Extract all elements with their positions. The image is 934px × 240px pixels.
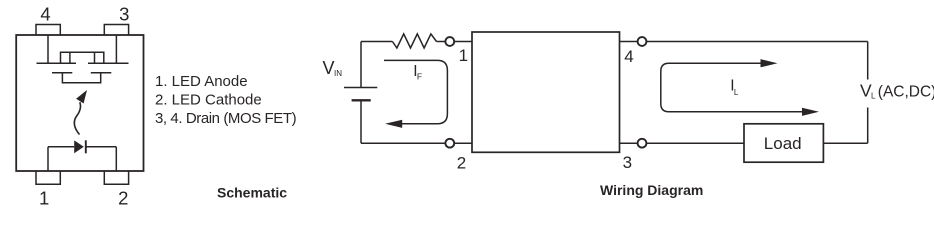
svg-text:1: 1 <box>39 188 49 209</box>
wire right vertical lower <box>867 108 869 144</box>
svg-text:4: 4 <box>624 47 633 66</box>
svg-text:Wiring Diagram: Wiring Diagram <box>600 182 703 198</box>
pin 1 tab <box>36 171 60 184</box>
svg-text:IN: IN <box>334 69 342 78</box>
IL current loop arrow <box>661 59 819 116</box>
battery VIN <box>344 42 377 144</box>
LED cathode leg to pin2 <box>115 147 117 171</box>
VL label <box>860 80 934 100</box>
wire box to terminal 3 <box>620 142 638 144</box>
MOSFET channel bar left <box>37 62 77 64</box>
IL label <box>730 77 739 96</box>
svg-text:2: 2 <box>118 188 128 209</box>
package outline U1 <box>16 35 143 171</box>
MOSFET gate connector <box>62 73 100 83</box>
terminal circle pin3 <box>638 139 647 148</box>
svg-text:L: L <box>871 92 876 101</box>
wire terminal 4 to load line <box>646 41 867 43</box>
LED D1 <box>48 140 116 153</box>
resistor R1 <box>392 34 436 48</box>
svg-text:(AC,DC): (AC,DC) <box>878 83 934 100</box>
MOSFET gate plates <box>52 72 111 74</box>
light coupling arrow <box>74 90 87 135</box>
svg-text:2. LED Cathode: 2. LED Cathode <box>155 92 262 109</box>
relay box <box>472 32 620 152</box>
wire box to terminal 4 <box>620 41 638 43</box>
terminal circle pin4 <box>638 37 647 46</box>
svg-text:L: L <box>734 88 739 97</box>
MOSFET drain lead pin4 <box>47 35 49 63</box>
wire terminal 2 to box <box>454 142 472 144</box>
pin 4 tab <box>36 25 60 36</box>
MOSFET channel bar right <box>88 62 129 64</box>
svg-text:Schematic: Schematic <box>217 185 287 201</box>
svg-text:4: 4 <box>40 3 50 24</box>
svg-text:1: 1 <box>459 46 468 65</box>
VIN label <box>323 58 343 78</box>
pin function list <box>155 73 297 127</box>
wire battery to terminal 2 <box>361 142 445 144</box>
MOSFET drain lead pin3 <box>115 35 117 63</box>
svg-text:2: 2 <box>457 153 466 172</box>
svg-text:3: 3 <box>119 3 129 24</box>
wire terminal 1 to box <box>454 41 472 43</box>
svg-text:3, 4. Drain (MOS FET): 3, 4. Drain (MOS FET) <box>155 110 297 127</box>
svg-text:F: F <box>417 72 422 82</box>
wire load to right vertical <box>823 142 867 144</box>
wire resistor to terminal 1 <box>437 41 446 43</box>
wire battery to resistor <box>361 41 392 43</box>
svg-text:1. LED Anode: 1. LED Anode <box>155 73 248 90</box>
MOSFET source interconnect <box>61 52 104 63</box>
svg-text:3: 3 <box>623 153 632 172</box>
wire right vertical upper <box>867 42 869 80</box>
wire terminal 3 to load <box>646 142 744 144</box>
IF current loop arrow <box>384 60 447 128</box>
terminal circle pin2 <box>445 139 454 148</box>
IF label <box>413 63 422 82</box>
pin 3 tab <box>104 25 128 36</box>
terminal circle pin1 <box>445 37 454 46</box>
svg-text:Load: Load <box>764 134 802 153</box>
load box <box>744 124 823 162</box>
LED anode leg to pin1 <box>47 147 49 171</box>
pin 2 tab <box>104 171 128 184</box>
svg-text:V: V <box>323 58 335 78</box>
